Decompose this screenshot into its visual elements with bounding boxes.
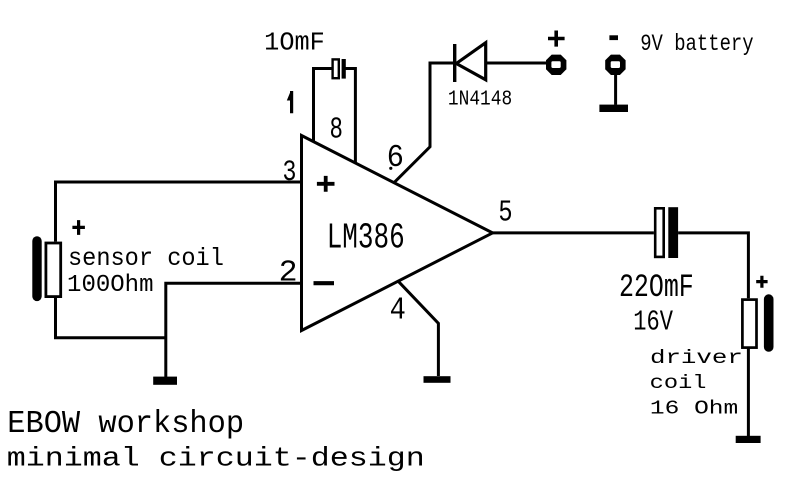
driver coil L2 body xyxy=(742,300,756,348)
wire driver coil to ground xyxy=(747,348,750,436)
svg-text:8: 8 xyxy=(330,114,343,148)
wire sensor coil bottom xyxy=(56,298,166,338)
svg-text:minimal circuit-design: minimal circuit-design xyxy=(7,445,425,475)
op-amp - input mark xyxy=(314,281,335,285)
svg-text:22OmF: 22OmF xyxy=(619,269,694,306)
ground bar G1 xyxy=(153,377,177,385)
pin 1 digit (custom narrow glyph) xyxy=(287,91,293,113)
svg-text:100Ohm: 100Ohm xyxy=(67,272,153,299)
capacitor C2 220mF right plate xyxy=(668,207,678,258)
ground bar G3 xyxy=(736,436,761,443)
op-amp + input mark xyxy=(317,176,335,192)
zero dot details in 100Ohm xyxy=(88,282,91,285)
sensor coil magnet bar xyxy=(32,236,41,301)
wire pin6 to diode xyxy=(394,63,453,183)
node pin6 dot xyxy=(389,167,392,170)
svg-text:3: 3 xyxy=(283,155,297,189)
ground bar G2 xyxy=(599,105,628,112)
capacitor C2 220mF left plate xyxy=(655,208,664,257)
svg-text:sensor coil: sensor coil xyxy=(68,246,224,273)
wire pin2 and ground branch xyxy=(166,283,301,377)
svg-text:16 Ohm: 16 Ohm xyxy=(650,397,738,419)
svg-text:5: 5 xyxy=(498,195,512,230)
capacitor C1 10mF left plate xyxy=(333,59,339,78)
wire - terminal to ground xyxy=(614,75,617,105)
diode D1 cathode bar xyxy=(453,44,456,82)
svg-text:2: 2 xyxy=(279,256,298,290)
svg-text:1OmF: 1OmF xyxy=(264,27,325,57)
wire 220mF to driver coil xyxy=(678,233,748,298)
wire pin5 output xyxy=(493,231,654,234)
wire pin3 from sensor coil top to op-amp xyxy=(56,182,302,242)
driver + sign xyxy=(756,276,767,288)
svg-text:1N4148: 1N4148 xyxy=(448,87,512,111)
svg-text:LM386: LM386 xyxy=(327,217,405,258)
sensor + sign xyxy=(72,220,85,235)
wire pin8 loop right xyxy=(345,69,355,164)
svg-text:driver: driver xyxy=(650,347,743,369)
diode D1 triangle xyxy=(456,43,485,80)
svg-text:coil: coil xyxy=(650,372,707,394)
- terminal pad xyxy=(605,55,625,75)
capacitor C1 10mF right plate xyxy=(342,59,346,79)
svg-text:4: 4 xyxy=(390,292,406,329)
svg-text:9V battery: 9V battery xyxy=(640,31,753,57)
battery - sign xyxy=(609,35,618,40)
wire pin1/8 loop left xyxy=(314,69,333,143)
wire diode to + terminal xyxy=(486,62,546,65)
svg-text:16V: 16V xyxy=(633,305,673,338)
sensor coil L1 body xyxy=(46,243,61,297)
svg-text:6: 6 xyxy=(387,141,404,176)
wire pin4 to ground xyxy=(398,281,438,376)
ground bar G4 xyxy=(424,376,451,383)
battery + sign xyxy=(548,31,565,47)
svg-text:EBOW workshop: EBOW workshop xyxy=(7,406,244,442)
op-amp U1 triangle xyxy=(302,136,493,331)
+ terminal pad xyxy=(546,55,566,75)
driver coil magnet bar xyxy=(764,294,774,352)
